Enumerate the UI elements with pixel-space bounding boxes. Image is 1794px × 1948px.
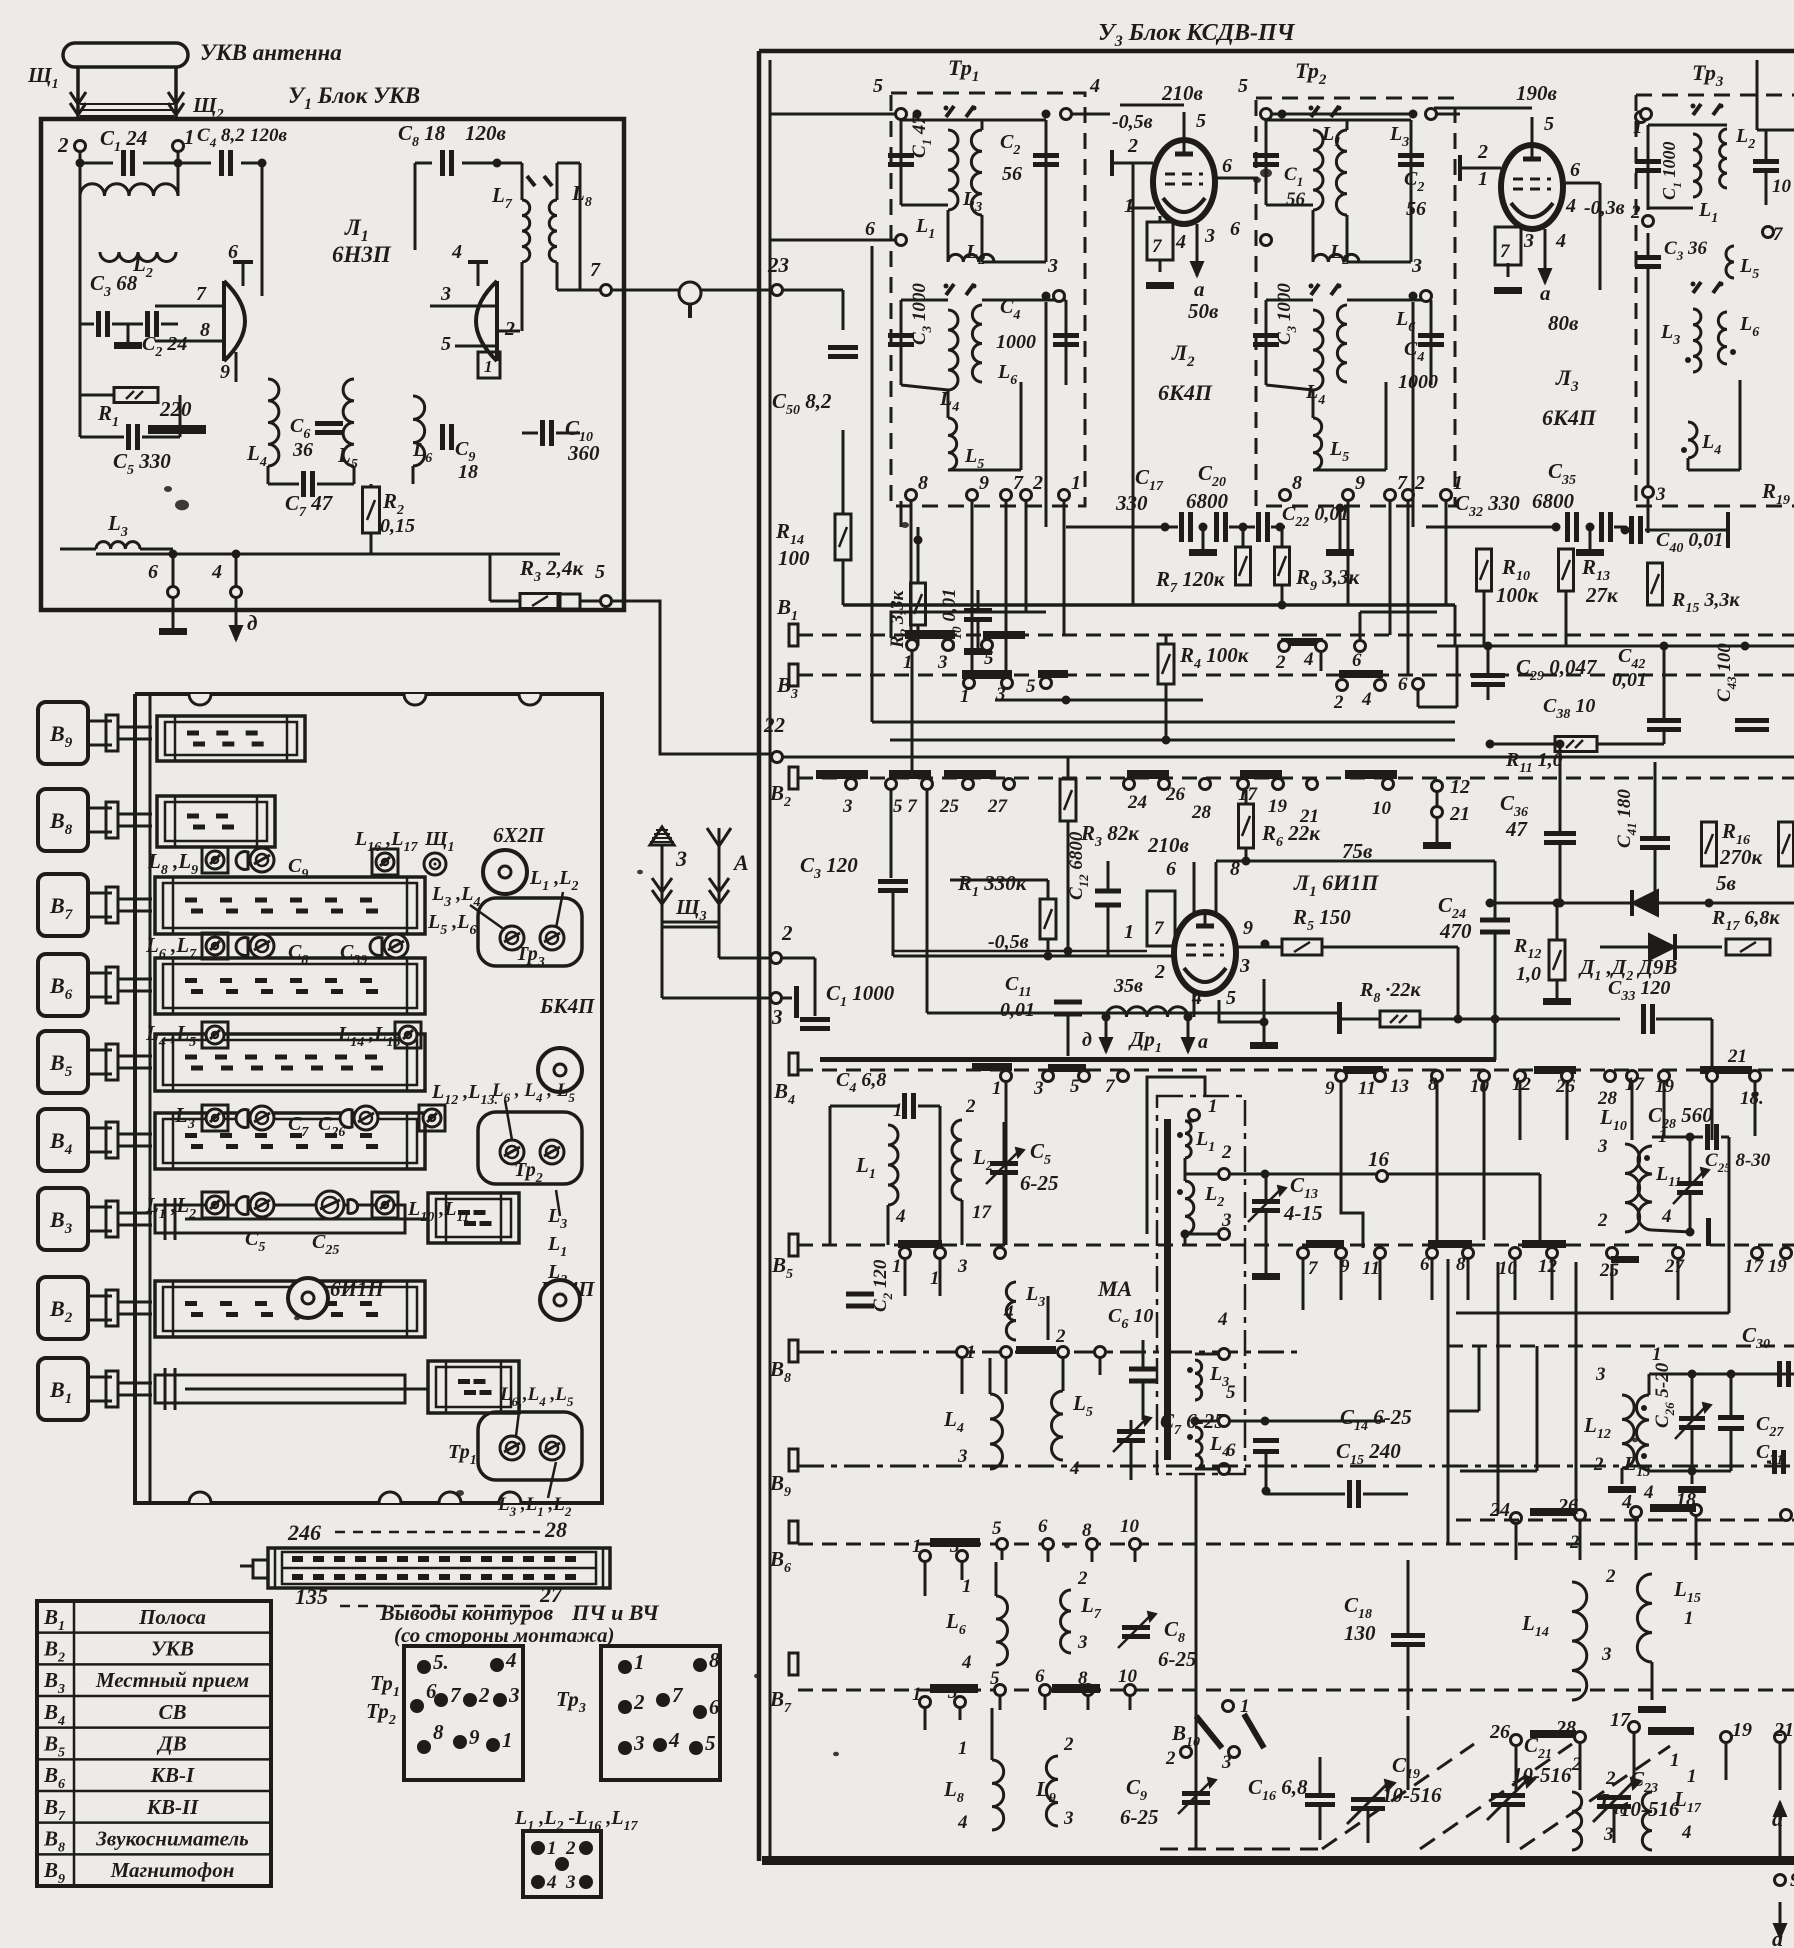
svg-text:1: 1 <box>892 1256 902 1277</box>
C8 6-25 trimmer <box>1122 1625 1150 1630</box>
bus 210v y605 <box>843 603 1455 607</box>
capacitor C1 24 <box>121 150 126 176</box>
svg-text:3: 3 <box>1601 1644 1612 1665</box>
svg-text:17: 17 <box>1610 1709 1631 1731</box>
svg-text:28: 28 <box>1191 802 1212 823</box>
svg-text:17 19: 17 19 <box>1744 1256 1787 1277</box>
C50 8.2 <box>828 345 858 350</box>
svg-text:6-25: 6-25 <box>1020 1171 1059 1195</box>
svg-text:2: 2 <box>1597 1210 1608 1231</box>
svg-text:4: 4 <box>1069 1458 1080 1479</box>
junction dots bottom <box>169 550 178 559</box>
R6 22k <box>1239 804 1254 848</box>
svg-text:5: 5 <box>1226 987 1236 1009</box>
svg-text:А: А <box>732 850 749 875</box>
R9 3.3k <box>1275 547 1290 585</box>
R2 3.3k left column <box>911 583 926 625</box>
Tr3 dashed box <box>1636 94 1794 97</box>
ground under 6 <box>172 598 175 628</box>
MA coil L1 <box>1189 1110 1200 1121</box>
svg-text:1: 1 <box>502 1728 513 1752</box>
box Tr1 Tr2 pinout <box>404 1646 523 1780</box>
svg-text:2: 2 <box>1063 1734 1074 1755</box>
svg-text:-0,5в: -0,5в <box>988 931 1029 953</box>
svg-text:6Х2П: 6Х2П <box>493 823 545 847</box>
svg-text:5: 5 <box>1544 113 1554 135</box>
svg-text:56: 56 <box>1002 163 1022 185</box>
svg-text:5: 5 <box>1070 1076 1080 1097</box>
box L pinout <box>523 1831 601 1897</box>
socket BK4P lower <box>540 1280 580 1320</box>
svg-text:190в: 190в <box>1516 81 1558 105</box>
inductor L2 IF <box>1313 254 1359 262</box>
svg-text:6: 6 <box>1420 1254 1430 1275</box>
svg-text:3: 3 <box>565 1872 576 1893</box>
MA ground vertical <box>1195 1474 1198 1849</box>
svg-text:7: 7 <box>590 259 601 281</box>
svg-text:9: 9 <box>469 1725 480 1749</box>
pin 2 <box>75 141 86 152</box>
svg-text:1: 1 <box>893 1100 903 1121</box>
dial dashed bottom <box>340 1605 535 1608</box>
svg-text:7: 7 <box>672 1683 684 1707</box>
wire plate1 feed <box>258 159 267 168</box>
capacitor C7 47 <box>301 471 306 497</box>
screw C5 <box>236 1196 248 1214</box>
inductor L6 IF <box>1337 305 1347 382</box>
svg-text:6К4П: 6К4П <box>1158 380 1213 405</box>
connector V2 <box>38 1277 88 1339</box>
svg-text:ПЧ и ВЧ: ПЧ и ВЧ <box>571 1600 660 1625</box>
svg-text:2: 2 <box>965 1096 976 1117</box>
svg-text:8: 8 <box>1292 472 1302 494</box>
ground symbol Z <box>650 827 674 845</box>
svg-text:Местный прием: Местный прием <box>95 1668 249 1692</box>
svg-text:6: 6 <box>1222 155 1232 177</box>
bus y860 <box>1216 860 1495 863</box>
gnd T right of C40 <box>1726 512 1730 548</box>
svg-text:1: 1 <box>1071 472 1081 494</box>
triode half 2 <box>495 281 499 361</box>
gang dashed lines <box>1322 1744 1474 1849</box>
Tr2 box <box>478 1112 582 1184</box>
L14 coil <box>1572 1582 1587 1700</box>
Tr1 dashed box <box>891 93 1085 506</box>
diode D2 <box>1600 946 1648 949</box>
line y1045 <box>1495 1044 1755 1046</box>
svg-text:2: 2 <box>1221 1142 1232 1163</box>
socket BK4P upper <box>538 1048 582 1092</box>
wire C8 left to grid2 <box>414 163 417 250</box>
inductor L2 <box>100 252 176 262</box>
cap right of L4 <box>1253 1438 1279 1443</box>
svg-text:470: 470 <box>1439 919 1472 943</box>
capacitor C20 6800 <box>1214 512 1219 542</box>
svg-text:8: 8 <box>200 319 210 341</box>
R17 6.8k <box>1726 939 1770 955</box>
square screw row2 <box>202 933 228 959</box>
svg-text:1: 1 <box>958 1738 968 1759</box>
svg-text:3: 3 <box>1204 225 1215 247</box>
svg-text:246: 246 <box>287 1520 321 1545</box>
chassis outline <box>135 694 602 1503</box>
C40 0.01 <box>1629 516 1634 544</box>
R10 100k <box>1477 549 1492 591</box>
resistor R1 220 <box>79 324 82 395</box>
MA coil L2 <box>1185 1181 1194 1234</box>
svg-text:3: 3 <box>1597 1136 1608 1157</box>
svg-text:9: 9 <box>979 472 989 494</box>
svg-text:12: 12 <box>1538 1256 1558 1277</box>
svg-text:1: 1 <box>1124 921 1134 943</box>
svg-text:9: 9 <box>1325 1078 1335 1099</box>
pin box 1 <box>478 352 500 378</box>
square screw L14 <box>395 1022 421 1048</box>
svg-text:6Н3П: 6Н3П <box>332 242 392 267</box>
R3 82k <box>1060 779 1076 821</box>
B8 contacts <box>957 1347 968 1358</box>
svg-text:100: 100 <box>778 546 810 570</box>
svg-text:2: 2 <box>57 133 69 157</box>
capacitor C8 18 <box>440 150 445 176</box>
L12 L13 coils <box>1622 1395 1634 1468</box>
svg-text:6-25: 6-25 <box>1120 1805 1159 1829</box>
R15 3.3k <box>1648 563 1663 605</box>
ground bus bottom <box>140 548 560 550</box>
svg-text:2: 2 <box>1414 472 1425 494</box>
inductor L5 <box>343 379 354 466</box>
IF line y527 <box>1066 526 1178 529</box>
svg-text:1000: 1000 <box>1398 371 1438 393</box>
wire tube L3 plate right <box>1545 104 1646 106</box>
pin5 loop gnd <box>1240 972 1264 979</box>
svg-text:3: 3 <box>957 1446 968 1467</box>
svg-text:1: 1 <box>1240 1696 1250 1717</box>
svg-text:360: 360 <box>567 441 600 465</box>
svg-text:3: 3 <box>995 684 1006 705</box>
core marks L7 L8 <box>527 176 535 186</box>
dial dashed top <box>335 1531 540 1534</box>
svg-text:7: 7 <box>196 283 207 305</box>
svg-text:6800: 6800 <box>1186 489 1229 513</box>
L15 coil <box>1637 1574 1652 1662</box>
R16 270k <box>1702 822 1717 866</box>
svg-text:1: 1 <box>634 1650 645 1674</box>
svg-text:5: 5 <box>1226 1382 1236 1403</box>
tube L1 6I1P <box>1174 912 1236 994</box>
svg-text:Звукосниматель: Звукосниматель <box>95 1826 249 1850</box>
svg-text:16: 16 <box>1368 1147 1390 1171</box>
B2 contact bars left <box>816 770 868 779</box>
svg-text:7: 7 <box>1105 1076 1116 1097</box>
wire 210v drop <box>1183 105 1185 112</box>
svg-text:8: 8 <box>918 472 928 494</box>
C9 6-25 trimmer band <box>1182 1791 1210 1796</box>
svg-text:10-516: 10-516 <box>1382 1783 1442 1807</box>
svg-text:10: 10 <box>1470 1076 1490 1097</box>
svg-text:4: 4 <box>1003 1302 1014 1323</box>
svg-text:1: 1 <box>1670 1750 1680 1771</box>
svg-text:10: 10 <box>1772 176 1792 197</box>
U3 bottom thick border <box>762 1856 1794 1865</box>
B4 contacts right <box>1343 1066 1383 1074</box>
svg-text:КВ-II: КВ-II <box>146 1795 199 1819</box>
svg-text:21: 21 <box>1299 806 1319 827</box>
R4 100k <box>1158 644 1174 684</box>
svg-text:0,15: 0,15 <box>380 515 415 537</box>
R7 120k <box>1236 547 1251 585</box>
R1 330k <box>1040 899 1056 939</box>
svg-text:5: 5 <box>441 333 451 355</box>
svg-text:27: 27 <box>987 796 1009 817</box>
B3 contact bars <box>962 670 1012 679</box>
svg-text:3: 3 <box>1655 484 1666 505</box>
pin 2 left <box>771 953 782 964</box>
wire Tr1 pin4 to tube L2 <box>907 113 1060 115</box>
arrow a mid <box>1187 1017 1190 1052</box>
wire C28 corner to y1313 <box>1728 1137 1731 1313</box>
switch slide bar <box>155 877 425 934</box>
capacitor C1 IF <box>900 120 903 205</box>
inductor L3 <box>96 542 140 549</box>
R11 1.0 <box>1555 737 1597 752</box>
L5 band coil <box>1052 1391 1064 1460</box>
resistor R2 0.15 <box>363 487 380 533</box>
svg-text:4: 4 <box>1555 230 1566 252</box>
svg-text:УКВ: УКВ <box>151 1636 194 1660</box>
C23 10-516 variable <box>1597 1795 1631 1800</box>
svg-text:5.: 5. <box>433 1650 449 1674</box>
square screw L16 <box>372 849 398 875</box>
anode arrow a L2 <box>1196 224 1199 276</box>
screw C25 <box>316 1191 344 1219</box>
triode half 1 <box>222 281 226 361</box>
svg-text:2: 2 <box>1127 135 1138 157</box>
corner box top right <box>1756 60 1759 130</box>
switch slide bar <box>157 716 305 761</box>
inductor L2 IF <box>948 254 994 262</box>
connector V1 <box>38 1358 88 1420</box>
R14 100 <box>835 514 851 560</box>
svg-text:8: 8 <box>1456 1254 1466 1275</box>
svg-text:2: 2 <box>1275 652 1286 673</box>
svg-text:1000: 1000 <box>996 331 1036 353</box>
svg-text:Выводы контуров: Выводы контуров <box>379 1600 553 1625</box>
svg-text:4: 4 <box>961 1652 972 1673</box>
svg-text:135: 135 <box>295 1584 328 1609</box>
svg-text:26: 26 <box>1165 784 1186 805</box>
svg-text:4: 4 <box>668 1728 680 1752</box>
wire y646 <box>1437 645 1794 648</box>
inductor L5 IF <box>948 418 957 470</box>
inductor L4 IF <box>948 310 958 390</box>
svg-text:6: 6 <box>1398 674 1408 695</box>
bus thick y1060 <box>820 1057 1496 1062</box>
pentode grid box 7 L2 <box>1147 222 1173 260</box>
svg-text:130: 130 <box>1344 1621 1376 1645</box>
band verticals plumbing <box>939 1259 942 1296</box>
svg-text:а: а <box>1198 1031 1208 1053</box>
svg-text:4: 4 <box>957 1812 968 1833</box>
box Tr3 pinout <box>601 1646 720 1780</box>
svg-text:9: 9 <box>220 361 230 383</box>
svg-text:6: 6 <box>865 218 875 240</box>
square screw row5 <box>202 1192 228 1218</box>
core marks IF top <box>946 106 954 117</box>
svg-text:2: 2 <box>1569 1532 1580 1553</box>
svg-text:4: 4 <box>1303 649 1314 670</box>
MA dash-dot box <box>1157 1096 1245 1474</box>
wire 6 row Tr1 <box>770 239 895 242</box>
inductor L4 <box>268 379 279 466</box>
svg-text:3: 3 <box>842 796 853 817</box>
svg-text:3: 3 <box>675 846 687 871</box>
inductor L7 <box>522 200 530 262</box>
svg-text:12: 12 <box>1450 776 1470 798</box>
bottom line resonator <box>1649 1470 1731 1473</box>
C10 0.01 left column <box>964 608 992 613</box>
svg-text:3: 3 <box>633 1731 645 1755</box>
capacitor C17 330 <box>1179 512 1184 542</box>
long verticals right of MA <box>1447 1259 1450 1544</box>
svg-text:а: а <box>1540 281 1551 305</box>
block U1 border <box>41 119 624 610</box>
svg-text:1: 1 <box>1687 1766 1697 1787</box>
diode D1 <box>1490 902 1630 905</box>
svg-text:2: 2 <box>504 318 515 340</box>
capacitor C4 IF <box>1065 300 1068 385</box>
connector V8 <box>38 789 88 851</box>
svg-text:28: 28 <box>544 1517 567 1542</box>
svg-text:5: 5 <box>1238 75 1248 97</box>
capacitor C22 0.01 <box>1256 512 1261 542</box>
inductor L3 IF <box>971 130 982 215</box>
MA ferrite bar <box>1164 1119 1171 1460</box>
svg-text:4: 4 <box>505 1648 517 1672</box>
wire tube L2 plate to Tr2 pin5 <box>1197 104 1266 106</box>
svg-text:25: 25 <box>939 796 960 817</box>
band coil L2 left <box>952 1120 962 1200</box>
inductor L1 IF <box>948 130 958 210</box>
connector V5 <box>38 1031 88 1093</box>
svg-text:2: 2 <box>1055 1326 1066 1347</box>
svg-text:3: 3 <box>1033 1078 1044 1099</box>
svg-text:3: 3 <box>1603 1824 1614 1845</box>
svg-text:1: 1 <box>930 1268 940 1289</box>
wire Tr2 pin4 to tube L3 <box>1437 113 1460 116</box>
screw C9 <box>236 852 248 870</box>
svg-text:7: 7 <box>450 1683 462 1707</box>
ground stub C17 C20 <box>1202 527 1205 549</box>
capacitor C4 IF <box>1430 300 1433 385</box>
svg-text:СВ: СВ <box>158 1700 186 1724</box>
pentode grid box 7 L3 <box>1495 227 1521 265</box>
square screw row1 <box>202 847 228 873</box>
C21 10-516 variable <box>1491 1793 1525 1798</box>
target mark <box>424 853 446 875</box>
svg-text:2: 2 <box>1165 1748 1176 1769</box>
svg-text:1: 1 <box>484 357 493 376</box>
svg-text:4: 4 <box>1175 231 1186 253</box>
long right verticals <box>1497 1262 1500 1514</box>
svg-text:1: 1 <box>1652 1344 1662 1365</box>
capacitor C4 8.2 <box>219 150 224 176</box>
square screw L10 <box>372 1192 398 1218</box>
svg-text:10: 10 <box>1118 1666 1138 1687</box>
svg-text:3: 3 <box>1411 255 1422 277</box>
wire 9 11 right of MA <box>1341 1082 1363 1248</box>
svg-text:210в: 210в <box>1147 833 1190 857</box>
switch slide bar <box>428 1193 519 1243</box>
inductor L1 IF <box>1313 130 1323 210</box>
svg-text:11: 11 <box>1362 1258 1380 1279</box>
verticals from B2 contacts <box>850 790 852 956</box>
svg-text:6: 6 <box>228 241 238 263</box>
svg-text:1: 1 <box>960 686 970 707</box>
svg-text:36: 36 <box>292 439 313 461</box>
svg-text:2: 2 <box>1605 1768 1616 1789</box>
C7 6-25 trimmer <box>1117 1429 1145 1434</box>
svg-text:6К4П: 6К4П <box>1542 405 1597 430</box>
Tr3 L4 coil <box>1688 422 1697 458</box>
table V1..V9 <box>37 1601 271 1886</box>
wire pins to C1 <box>79 152 82 196</box>
Tr3 C2 cap right <box>1753 159 1779 164</box>
svg-text:21: 21 <box>1773 1719 1794 1741</box>
Tr3 core marks <box>1693 104 1701 115</box>
svg-text:12: 12 <box>1512 1074 1532 1095</box>
second resonator cap C3 <box>1311 284 1319 295</box>
B1 contact bars <box>905 630 955 639</box>
svg-text:9: 9 <box>1790 1869 1794 1891</box>
tube L2 6K4P <box>1153 140 1215 224</box>
capacitor C10 360 <box>540 420 545 446</box>
svg-text:5: 5 <box>992 1518 1002 1539</box>
svg-text:5: 5 <box>1026 676 1036 697</box>
svg-text:2: 2 <box>1477 141 1488 163</box>
switch slide bar <box>155 958 425 1014</box>
svg-text:1: 1 <box>1478 168 1488 190</box>
R12 1.0 <box>1549 940 1565 980</box>
svg-text:1: 1 <box>992 1078 1002 1099</box>
svg-text:26: 26 <box>1489 1721 1510 1743</box>
grid line to tube L1 <box>893 955 1174 958</box>
choke Dr1 <box>1102 1013 1111 1022</box>
U3 border left <box>757 51 762 1861</box>
svg-text:4: 4 <box>546 1872 557 1893</box>
tube L2 cathode gnd <box>1159 260 1162 272</box>
B4 contacts left <box>972 1063 1012 1071</box>
Tr3 L3 coil <box>1693 309 1701 372</box>
svg-text:1: 1 <box>912 1536 922 1557</box>
svg-text:8: 8 <box>709 1648 720 1672</box>
svg-text:(со стороны монтажа): (со стороны монтажа) <box>394 1623 615 1647</box>
svg-text:7: 7 <box>1500 241 1511 262</box>
svg-text:13: 13 <box>1390 1076 1409 1097</box>
svg-text:18: 18 <box>458 461 478 483</box>
verticals mid top <box>871 246 874 722</box>
switch slide bar <box>155 1281 425 1337</box>
antenna symbol A <box>718 846 721 958</box>
svg-text:10-516: 10-516 <box>1512 1763 1572 1787</box>
screw C8 <box>236 938 248 956</box>
connector V7 <box>38 874 88 936</box>
svg-text:4: 4 <box>1681 1822 1692 1843</box>
svg-text:-0,5в: -0,5в <box>1112 111 1153 133</box>
svg-text:6: 6 <box>1166 858 1176 880</box>
B4 dashed row <box>798 1069 1794 1072</box>
Tr1 box <box>478 1412 582 1480</box>
